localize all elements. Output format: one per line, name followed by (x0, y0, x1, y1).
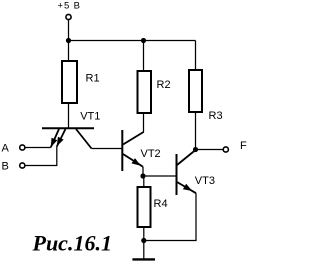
node junction R4 / VT3 emitter / ground (141, 238, 146, 243)
resistor R4 (138, 187, 151, 227)
transistor VT2 collector (123, 132, 144, 145)
wire top bus (69, 40, 196, 42)
transistor VT1 emitter 2 (57, 129, 66, 147)
transistor VT1 collector (76, 129, 92, 149)
transistor VT2 emitter (123, 154, 143, 167)
transistor VT3 emitter (177, 182, 196, 193)
wire supply vertical (68, 20, 70, 41)
svg-text:B: B (2, 161, 9, 173)
node junction R3 / VT3 collector / F (193, 147, 198, 152)
wire bus to R3 (195, 41, 197, 71)
ground (132, 258, 155, 260)
transistor VT3 collector (177, 150, 196, 165)
transistor VT3 base bar (176, 154, 178, 195)
svg-text:A: A (2, 143, 10, 155)
resistor R2 (138, 71, 152, 113)
svg-text:R1: R1 (86, 73, 100, 85)
wire input A (25, 147, 51, 149)
terminal F (223, 147, 228, 152)
transistor VT1 base bar (42, 127, 94, 129)
svg-text:VT2: VT2 (141, 148, 161, 160)
svg-text:VT3: VT3 (195, 175, 215, 187)
wire VT2 collector to R2 (143, 113, 145, 133)
svg-text:VT1: VT1 (80, 111, 100, 123)
svg-text:R4: R4 (154, 198, 168, 210)
wire R3 bottom to collector node (195, 112, 197, 150)
node junction bus-R2 (141, 38, 146, 43)
wire VT1 collector to VT2 base (92, 148, 122, 150)
wire R1 bottom to VT1 base (68, 103, 70, 128)
transistor VT1 emitter 1 arrowhead (51, 138, 58, 148)
wire VT2 emitter down (142, 167, 144, 176)
wire output F (196, 149, 224, 151)
transistor VT1 emitter 1 (51, 129, 59, 147)
svg-text:+5 В: +5 В (58, 1, 81, 12)
node junction VT2 emitter / R4 / VT3 base (140, 173, 145, 178)
wire R4 top (143, 176, 145, 187)
svg-text:R2: R2 (157, 79, 171, 91)
node junction supply-R1 (66, 38, 71, 43)
wire R4 bottom (143, 227, 145, 241)
terminal B (20, 163, 25, 168)
svg-text:F: F (240, 140, 247, 152)
wire junction to VT3 base (143, 175, 176, 177)
resistor R3 (189, 70, 202, 112)
terminal A (20, 145, 25, 150)
terminal +5V (66, 14, 71, 19)
transistor VT3 emitter arrowhead (183, 184, 192, 191)
resistor R1 (62, 61, 77, 103)
transistor VT2 emitter arrowhead (132, 158, 141, 166)
svg-text:R3: R3 (209, 110, 223, 122)
wire VT3 emitter down and left (144, 193, 196, 240)
wire to ground (143, 241, 145, 259)
wire bus to R2 (143, 41, 145, 72)
wire R1 top (68, 41, 70, 62)
svg-text:Рис.16.1: Рис.16.1 (32, 231, 112, 256)
transistor VT2 base bar (121, 130, 123, 171)
transistor VT1 emitter 2 arrowhead (57, 137, 64, 147)
wire input B (25, 147, 57, 166)
